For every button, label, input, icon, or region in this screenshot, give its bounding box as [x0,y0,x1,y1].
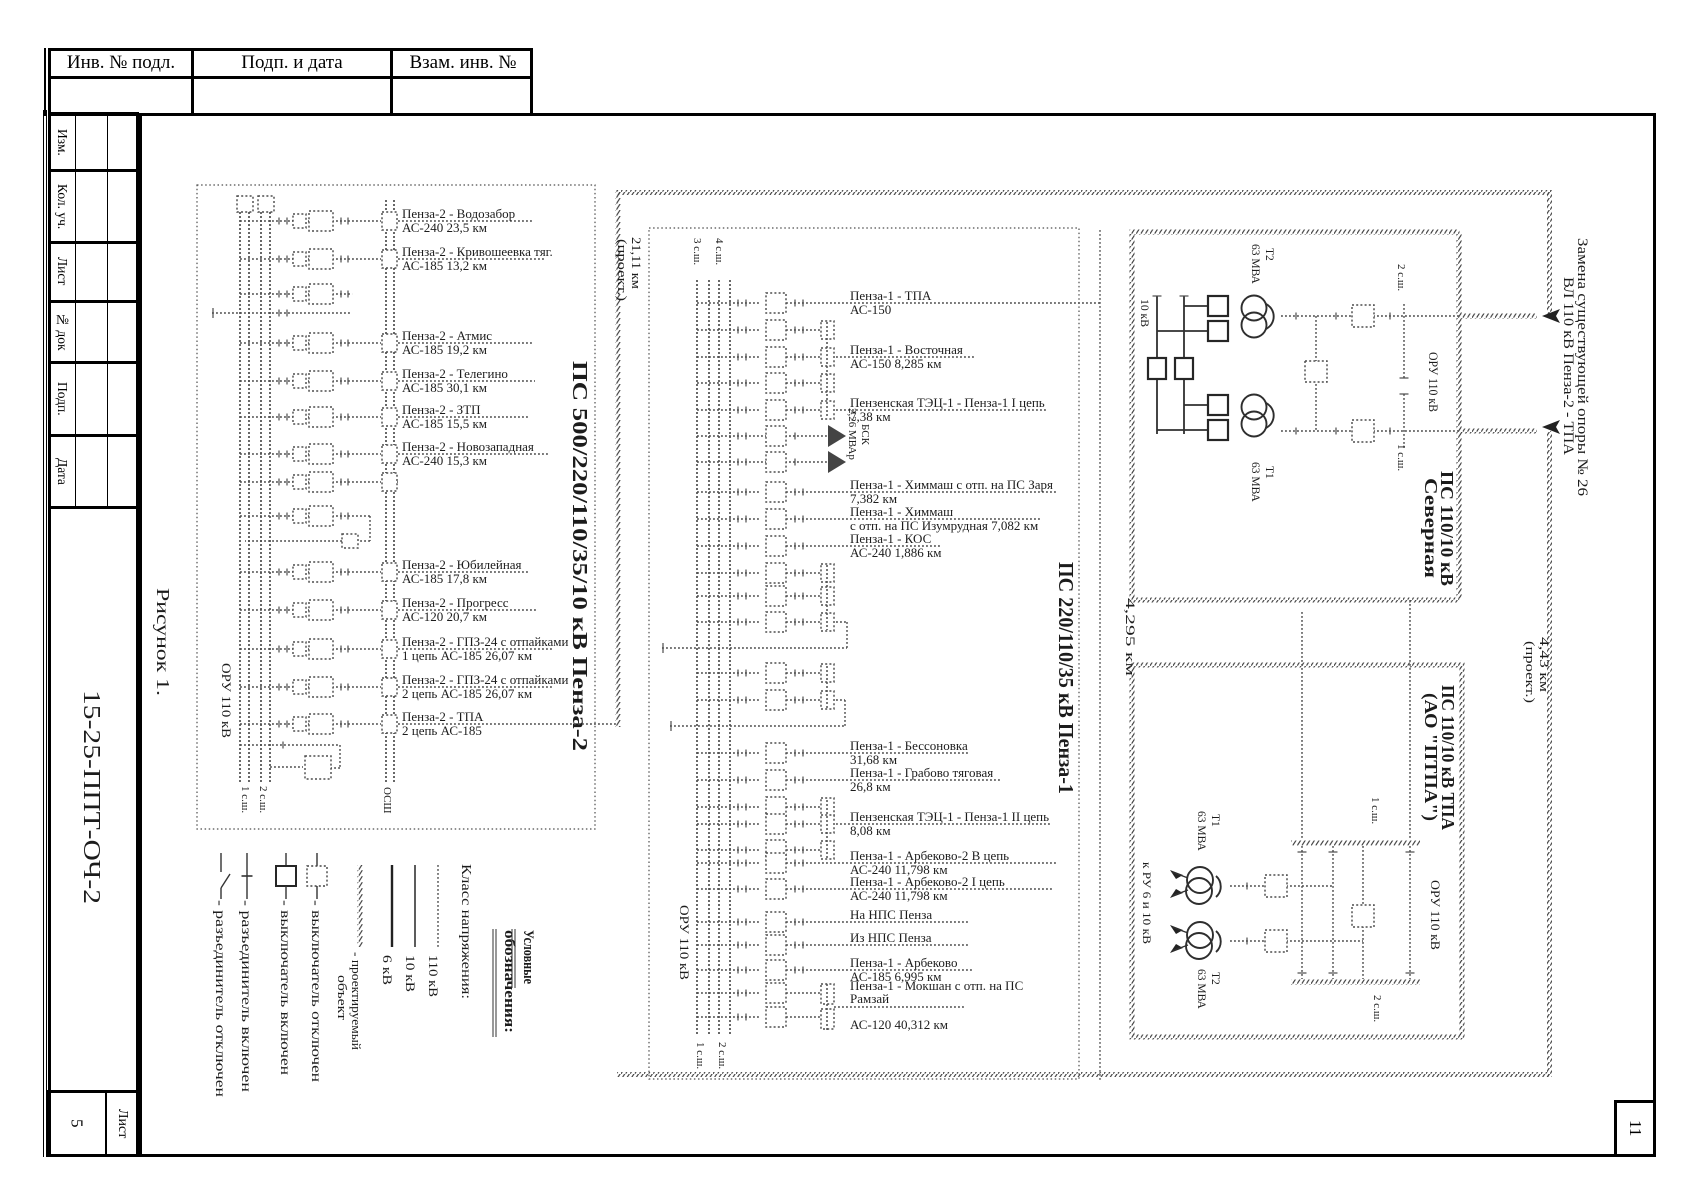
svg-text:Пенза-2 - Кривошеевка тяг.: Пенза-2 - Кривошеевка тяг. [402,244,553,259]
svg-text:8,08 км: 8,08 км [850,823,891,838]
legend symbol выключатель отключен [307,853,327,1082]
projected line: top horizontal run [617,190,1551,195]
110 kV bus 2 с.ш. (ТПА) [1291,980,1420,985]
feeder bay Пенза-2 - Водозабор (АС-240 23,5 км) [240,206,532,235]
substation box ПС 110/10 кВ ТПА (АО ПТПА) [1130,663,1465,1040]
feeder bay Пенза-1 - Химмаш [697,504,1040,533]
110 kV side line of Т1 [1281,420,1459,442]
label 2,26 МВАр / БСК [846,408,871,460]
feeder bay Пензенская ТЭЦ-1 - Пенза-1 I цепь [697,395,1047,424]
110 kV bus 1 с.ш. (ТПА) [1291,841,1420,846]
substation box ПС 110/10 кВ Северная (projected, hatched border) [1130,230,1462,603]
10 kV breaker on section 1 (closed) [1148,358,1166,379]
svg-text:- выключатель включен: - выключатель включен [278,900,293,1075]
label 2 с.ш. [716,1042,728,1069]
svg-text:110 кВ: 110 кВ [426,955,441,997]
10 kV bus section 1 (Северная) [1153,296,1162,434]
svg-text:Пенза-2 - Водозабор: Пенза-2 - Водозабор [402,206,515,221]
БСК 2,26 МВАр capacitor bank bay 1 [697,425,846,447]
svg-text:1 с.ш.: 1 с.ш. [1395,444,1407,471]
svg-text:2 с.ш.: 2 с.ш. [716,1042,728,1069]
title ПС 110/10 кВ Северная [1421,471,1457,586]
feeder bay Пенза-2 - Новозападная (АС-240 15,3 км) [240,439,548,468]
svg-text:ОРУ 110 кВ: ОРУ 110 кВ [1428,880,1443,950]
top stamp band: Инв. № подл. | Подп. и дата | Взам. инв. № [44,48,46,116]
svg-text:АС-240 23,5 км: АС-240 23,5 км [402,220,487,235]
transformer Т1 63 МВА (Северная) [1157,395,1274,441]
label ОРУ 110 кВ (Пенза-1) [677,905,692,980]
svg-text:Пенза-2 - ГПЗ-24 с отпайками: Пенза-2 - ГПЗ-24 с отпайками [402,634,569,649]
label ОРУ 110 кВ (Пенза-2) [219,663,234,738]
autotransformer line 2 (Пенза-1) [670,721,845,731]
svg-text:Пенза-2 - Телегино: Пенза-2 - Телегино [402,366,508,381]
transformer Т2 63 МВА (ТПА) [1170,922,1221,959]
svg-text:Т1: Т1 [1263,466,1275,479]
svg-text:ПС 220/110/35 кВ Пенза-1: ПС 220/110/35 кВ Пенза-1 [1054,562,1078,794]
label 1 с.ш. [694,1042,706,1069]
bottom Лист / 5 box [46,1090,139,1157]
svg-text:БСК: БСК [859,424,871,446]
label 1 с.ш. [1395,444,1407,471]
legend symbol разъединитель отключен [213,853,230,1097]
feeder bay Пенза-1 - КОС [697,531,942,560]
svg-text:АС-150: АС-150 [850,302,891,317]
label 4 с.ш. [713,238,725,265]
transformer loop bay 1 (Пенза-2) [240,506,370,548]
feeder bay Пенза-1 - Химмаш с отп. на ПС Заря [697,477,1058,506]
bus 3 с.ш. / 1 с.ш. (Пенза-1) [697,280,709,1035]
svg-text:(проект.): (проект.) [1523,641,1538,703]
110 kV bus 1 с.ш. (Северная) [1400,394,1409,450]
svg-text:1 с.ш.: 1 с.ш. [694,1042,706,1069]
feeder bay spare bay (Пенза-1) [697,320,834,340]
title ПС 500/220/110/35/10 кВ Пенза-2 [568,361,592,751]
svg-text:21,11 км: 21,11 км [629,237,644,289]
svg-text:АС-240 15,3 км: АС-240 15,3 км [402,453,487,468]
feeder bay Пенза-1 - Бессоновка [697,738,970,767]
svg-text:Пенза-2 - Юбилейная: Пенза-2 - Юбилейная [402,557,522,572]
svg-text:ОРУ 110 кВ: ОРУ 110 кВ [219,663,234,738]
svg-text:Пенза-1 - Грабово тяговая: Пенза-1 - Грабово тяговая [850,765,993,780]
bypass bus ОСШ (Пенза-2) [386,200,394,783]
label 4,43 км (проект.) [1523,637,1552,703]
projected 110 kV line Пенза-2 – ТПА (hatched route) : left vertical [616,190,621,727]
bus 4 с.ш. / 2 с.ш. (Пенза-1) [719,280,730,1035]
110 kV line of Т1 with open breaker [1230,875,1333,897]
arrow to replaced tower (circuit 2) [1542,420,1560,434]
svg-text:АС-240 11,798 км: АС-240 11,798 км [850,888,948,903]
document designation 15-25-ППТ-ОЧ-2 [78,690,104,904]
feeder bay Пенза-1 - Арбеково-2 I цепь [697,874,1052,903]
svg-text:АС-185 17,8 км: АС-185 17,8 км [402,571,487,586]
svg-text:1 с.ш.: 1 с.ш. [239,786,251,813]
svg-text:Рисунок 1.: Рисунок 1. [153,588,173,696]
svg-text:Пенза-1 - Химмаш с отп. на ПС: Пенза-1 - Химмаш с отп. на ПС Заря [850,477,1053,492]
lower reactor bay (Пенза-2) [240,742,340,780]
БСК 2,26 МВАр capacitor bank bay 2 [697,451,846,473]
svg-text:АС-185 19,2 км: АС-185 19,2 км [402,342,487,357]
feeder bay На НПС Пенза [697,907,968,932]
label ОРУ 110 кВ (ТПА) [1428,880,1443,950]
svg-text:Пенза-2 - Прогресс: Пенза-2 - Прогресс [402,595,509,610]
svg-text:к РУ 6 и 10 кВ: к РУ 6 и 10 кВ [1140,862,1154,944]
svg-text:ОРУ 110 кВ: ОРУ 110 кВ [1426,352,1441,412]
svg-text:На НПС Пенза: На НПС Пенза [850,907,932,922]
legend sample 110 кВ [426,865,441,997]
feeder bay Пенза-2 - ГПЗ-24 с отпайками (2 цепь АС-185 26,07 км) [240,672,569,701]
feeder bay Пенза-2 - Юбилейная (АС-185 17,8 км) [240,557,530,586]
label 2 с.ш. (ТПА) [1371,995,1383,1022]
autotransformer line 1 (Пенза-1) [662,643,847,653]
svg-text:АС-240 1,886 км: АС-240 1,886 км [850,545,942,560]
label 10 кВ [1138,299,1152,327]
legend sample 10 кВ [403,865,418,992]
transformer Т1 63 МВА (ТПА) [1170,867,1221,904]
svg-text:2 цепь АС-185 26,07 км: 2 цепь АС-185 26,07 км [402,686,532,701]
svg-text:10 кВ: 10 кВ [403,955,418,992]
label 21,11 км (проект.) [615,237,644,301]
bus tie with breaker (Северная 110 кВ) [1305,316,1327,431]
label к РУ 6 и 10 кВ [1140,862,1154,944]
row labels (rotated) [50,116,74,168]
bus 2 с.ш. (Пенза-2 ОРУ 110 кВ) [261,196,270,783]
label 2 с.ш. [1395,264,1407,291]
svg-text:2,26 МВАр: 2,26 МВАр [846,408,858,460]
feeder bay Пенза-2 - Прогресс (АС-120 20,7 км) [240,595,536,624]
incoming line from Пенза-1 (4,295 км) [1301,612,1303,840]
svg-text:Пенза-1 - ТПА: Пенза-1 - ТПА [850,288,932,303]
bus coupler disconnectors (top of Пенза-2 buses) [237,196,274,212]
spare bay (Пенза-2, no label) [240,284,352,304]
autotransformer loop 1 (Пенза-1) [836,622,847,648]
label Т1 63 МВА [1249,462,1275,503]
svg-text:Пенза-1 - Арбеково: Пенза-1 - Арбеково [850,955,958,970]
svg-text:ОРУ 110 кВ: ОРУ 110 кВ [677,905,692,980]
spare bay below Мокшан [697,984,834,1030]
110 kV bus 2 с.ш. (Северная) [1400,304,1409,378]
substation box ПС 500/220/110/35/10 кВ Пенза-2 [197,185,595,829]
svg-text:Из НПС Пенза: Из НПС Пенза [850,930,932,945]
svg-text:Т2: Т2 [1209,972,1221,985]
incoming projected line to Т2 (from tower 26) [1461,314,1537,319]
svg-text:2 с.ш.: 2 с.ш. [1371,995,1383,1022]
svg-text:Пенза-1 - Восточная: Пенза-1 - Восточная [850,342,963,357]
label ОРУ 110 кВ (Северная) [1426,352,1441,412]
svg-text:1 цепь АС-185 26,07 км: 1 цепь АС-185 26,07 км [402,648,532,663]
svg-text:Пенза-2 - Атмис: Пенза-2 - Атмис [402,328,492,343]
label Т2 63 МВА (ТПА) [1195,969,1221,1010]
bypass bus sections ОСШ (Пенза-1) [826,322,828,858]
feeder bay Пенза-2 - Атмис (АС-185 19,2 км) [240,328,532,357]
svg-text:15-25-ППТ-ОЧ-2: 15-25-ППТ-ОЧ-2 [78,690,104,904]
svg-text:Пенза-1 - Арбеково-2 I цепь: Пенза-1 - Арбеково-2 I цепь [850,874,1005,889]
feeder bay Пенза-2 - Телегино (АС-185 30,1 км) [240,366,535,395]
feeder bay Пенза-1 - Восточная [697,342,975,371]
transformer Т2 63 МВА (Северная) [1157,296,1274,342]
svg-text:Класс напряжения:: Класс напряжения: [459,864,474,999]
svg-text:6 кВ: 6 кВ [380,955,395,985]
svg-text:10 кВ: 10 кВ [1138,299,1152,327]
internal column lines of mini table [75,112,76,508]
section bay (Пенза-2, no label) [240,472,398,492]
figure caption Рисунок 1. [153,588,173,696]
10 kV breaker on section 2 (closed) [1175,358,1193,379]
label 2 с.ш. [257,786,269,813]
svg-text:Пенза-2 - ГПЗ-24 с отпайками: Пенза-2 - ГПЗ-24 с отпайками [402,672,569,687]
sheet number box 11 [1614,1100,1656,1157]
label 3 с.ш. [691,238,703,265]
svg-text:Пензенская ТЭЦ-1 - Пенза-1 I ц: Пензенская ТЭЦ-1 - Пенза-1 I цепь [850,395,1045,410]
svg-text:Пенза-1 - Бессоновка: Пенза-1 - Бессоновка [850,738,968,753]
svg-text:4,43 км: 4,43 км [1537,637,1552,692]
feeder bay spare bay (Пенза-1) [697,563,834,583]
transformer bay line (Пенза-2) [212,308,351,318]
legend sample проектируемый объект [335,865,364,1050]
110 kV line of Т2 with open breaker [1230,930,1363,952]
svg-text:АС-120 20,7 км: АС-120 20,7 км [402,609,487,624]
bus 1 с.ш. (Пенза-2 ОРУ 110 кВ) [240,196,249,783]
feeder bay spare bay (Пенза-1) [697,373,834,393]
feeder bay Пенза-2 - ГПЗ-24 с отпайками (1 цепь АС-185 26,07 км) [240,634,569,663]
title ПС 220/110/35 кВ Пенза-1 [1054,562,1078,794]
feeder bay Пенза-1 - Грабово тяговая [697,765,1000,794]
svg-text:63 МВА: 63 МВА [1249,244,1261,285]
feeder bay Пенза-2 - ЗТП (АС-185 15,5 км) [240,402,530,431]
label 1 с.ш. (ТПА) [1369,797,1381,824]
label Т1 63 МВА (ТПА) [1195,811,1221,852]
label 1 с.ш. [239,786,251,813]
feeder bay spare bay (Пенза-1) [697,690,834,710]
feeder bay Пенза-2 - ТПА (2 цепь АС-185) [240,709,618,738]
legend Класс напряжения: [459,864,474,999]
svg-text:(проект.): (проект.) [615,239,630,301]
autotransformer loop 2 (Пенза-1) [836,700,845,726]
svg-text:- проектируемый: - проектируемый [349,952,364,1050]
svg-text:Пенза-1 - Арбеково-2 В цепь: Пенза-1 - Арбеково-2 В цепь [850,848,1009,863]
incoming projected line from Пенза-2 (4,43 км) [1409,600,1411,840]
svg-text:Северная: Северная [1421,478,1441,578]
label Т2 63 МВА [1249,244,1275,285]
svg-text:АС-150 8,285 км: АС-150 8,285 км [850,356,942,371]
svg-text:2 с.ш.: 2 с.ш. [257,786,269,813]
svg-text:Т2: Т2 [1263,248,1275,261]
svg-text:объект: объект [335,975,350,1020]
svg-text:Рамзай: Рамзай [850,991,889,1006]
bus riser 3 (ТПА) [1406,846,1415,979]
feeder bay Пенза-1 - Арбеково [697,955,972,984]
legend symbol разъединитель включен [239,853,254,1092]
title ПС 110/10 кВ ТПА (АО "ПТПА") [1420,685,1458,830]
svg-text:ВЛ 110 кВ Пенза-2 - ТПА: ВЛ 110 кВ Пенза-2 - ТПА [1560,277,1576,456]
feeder bay Пенза-1 - Арбеково-2 В цепь [697,848,1056,877]
10 kV bus section 2 (Северная) [1180,296,1189,434]
feeder bay spare bay (Пенза-1) [697,663,834,683]
svg-text:ПС 500/220/110/35/10 кВ Пенза-: ПС 500/220/110/35/10 кВ Пенза-2 [568,361,592,751]
feeder bay spare bay (Пенза-1) [697,840,834,860]
left title-block strip [48,112,139,1157]
svg-text:2 цепь АС-185: 2 цепь АС-185 [402,723,482,738]
label 4,295 км [1123,598,1138,676]
svg-text:Пензенская ТЭЦ-1 - Пенза-1 II: Пензенская ТЭЦ-1 - Пенза-1 II цепь [850,809,1049,824]
svg-text:2 с.ш.: 2 с.ш. [1395,264,1407,291]
svg-text:(АО "ПТПА"): (АО "ПТПА") [1420,693,1441,821]
svg-text:АС-185 30,1 км: АС-185 30,1 км [402,380,487,395]
svg-text:63 МВА: 63 МВА [1249,462,1261,503]
svg-text:АС-185 13,2 км: АС-185 13,2 км [402,258,487,273]
svg-text:АС-120 40,312 км: АС-120 40,312 км [850,1017,948,1032]
svg-text:Пенза-1 - Химмаш: Пенза-1 - Химмаш [850,504,953,519]
bus riser 2 (ТПА) [1329,846,1338,979]
feeder bay Из НПС Пенза [697,930,968,955]
incoming projected line to Т1 (from tower 26) [1461,429,1537,434]
feeder bay spare bay (Пенза-1) [697,612,834,632]
bus tie breaker (ТПА) [1352,846,1374,979]
feeder bay Пенза-2 - Кривошеевка тяг. (АС-185 13,2 км) [240,244,553,273]
arrow to replaced tower (circuit 1) [1542,309,1560,323]
callout Замена существующей опоры № 26 ВЛ 110 кВ Пенза-2 - ТПА [1560,238,1590,496]
svg-text:63 МВА: 63 МВА [1195,969,1207,1010]
svg-text:63 МВА: 63 МВА [1195,811,1207,852]
svg-text:- разъединитель включен: - разъединитель включен [239,900,254,1092]
label ОСШ [381,787,393,814]
legend sample 6 кВ [380,865,395,985]
svg-text:Условные: Условные [520,930,536,984]
main drawing frame [139,113,1656,1157]
projected line: right vertical run [1547,190,1552,1077]
feeder bay spare bay (Пенза-1) [697,586,834,606]
legend heading Условные обозначения [493,929,536,1037]
feeder bay spare bay (Пенза-1) [697,797,834,817]
projected line: bottom horizontal run [617,1072,1550,1077]
existing 110 kV line Пенза-1 – ТПА [1099,230,1101,1082]
rows Изм..Дата [48,169,139,172]
svg-text:Т1: Т1 [1209,814,1221,827]
svg-text:- выключатель отключен: - выключатель отключен [309,900,324,1082]
substation box ПС 220/110/35 кВ Пенза-1 [649,228,1079,1079]
svg-text:Пенза-2 - ЗТП: Пенза-2 - ЗТП [402,402,481,417]
bus riser with disconnectors (ТПА) [1298,846,1307,979]
svg-text:4 с.ш.: 4 с.ш. [713,238,725,265]
feeder bay Пенза-1 - Мокшан с отп. на ПС Рамзай [697,978,1023,1032]
feeder bay Пенза-1 - ТПА [697,288,1100,317]
svg-text:Пенза-1 - КОС: Пенза-1 - КОС [850,531,931,546]
feeder bay Пензенская ТЭЦ-1 - Пенза-1 II цепь [697,809,1050,838]
legend symbol выключатель включен [276,853,296,1075]
svg-text:1 с.ш.: 1 с.ш. [1369,797,1381,824]
svg-text:- разъединитель отключен: - разъединитель отключен [213,900,228,1097]
svg-text:АС-185 15,5 км: АС-185 15,5 км [402,416,487,431]
svg-text:Пенза-2 - Новозападная: Пенза-2 - Новозападная [402,439,534,454]
sheet outer thin border lines [43,110,44,1157]
svg-text:ОСШ: ОСШ [381,787,393,814]
svg-text:Пенза-2 - ТПА: Пенза-2 - ТПА [402,709,484,724]
svg-text:3 с.ш.: 3 с.ш. [691,238,703,265]
110 kV side line of Т2 [1281,305,1459,327]
svg-text:26,8 км: 26,8 км [850,779,891,794]
